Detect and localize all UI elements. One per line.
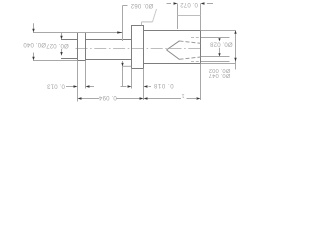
- arrow 0.094 left tip at E2: [78, 97, 82, 99]
- svg-text:0. 018: 0. 018: [153, 82, 173, 89]
- extension line cone base up: [177, 4, 179, 30]
- top right left arrow stem: [167, 3, 172, 5]
- arrow 0.013 left tip at E2b: [86, 85, 90, 87]
- extension cbore upper right: [201, 37, 230, 39]
- pin tail top edge: [62, 39, 78, 41]
- row1 0.018 right arrow stem: [148, 86, 151, 88]
- dia 0.027 bottom arrow stem: [61, 49, 63, 52]
- part outline: [62, 26, 201, 69]
- arrowheads: [32, 2, 236, 99]
- extension cbore lower right: [201, 61, 230, 63]
- dimension and extension lines: [33, 4, 236, 102]
- leader elbow vertical at flange2 right: [141, 22, 143, 25]
- arrow at end face ext pointing left: [201, 2, 205, 4]
- extension line E2: [77, 61, 79, 102]
- arrow stem A1: [33, 23, 35, 29]
- dimension texts all rotated 180: [23, 1, 233, 101]
- arrow at cone base ext pointing right: [174, 2, 178, 4]
- arrow dia027 down at pin top: [60, 36, 62, 40]
- svg-text:Ø0. 027: Ø0. 027: [46, 42, 69, 49]
- E5 vertical dim line right: [235, 31, 237, 70]
- extension end face down: [200, 64, 202, 101]
- svg-text:Ø0. 062: Ø0. 062: [130, 2, 153, 9]
- collar flange1: [78, 33, 86, 61]
- hidden hole lines: [167, 38, 201, 62]
- extension flange2 left: [131, 69, 133, 89]
- drill cone upper: [167, 41, 180, 50]
- row2 length dim line right part: [187, 98, 197, 100]
- arrow 0.094 right tip at flange2 right: [140, 97, 144, 99]
- arrow dia028 down above text: [218, 38, 220, 41]
- row2 0.094 dim line left part: [81, 98, 100, 100]
- arrow length right tip: [197, 97, 201, 99]
- counterbore lower dashed: [191, 61, 200, 63]
- L2 dim line flange bottom ext: [33, 60, 78, 62]
- arrow down on E3 at stub line: [121, 63, 123, 66]
- extension line E3 lower: [122, 61, 124, 87]
- extension line E3 upper: [122, 6, 124, 42]
- drill cone lower: [167, 50, 180, 60]
- arrow E5 bottom pointing down: [234, 58, 236, 62]
- extension line E2b: [85, 61, 87, 89]
- svg-text:Ø0. 028: Ø0. 028: [209, 41, 232, 48]
- top right right arrow stem: [207, 3, 213, 5]
- arrow A1 down at L1: [32, 29, 34, 33]
- centerline: [76, 48, 204, 50]
- arrow 0.018 tip at flange2 right: [144, 85, 148, 87]
- extension line end face up: [200, 4, 202, 31]
- leader diagonal up to top text: [153, 9, 157, 22]
- svg-text:1: 1: [181, 92, 184, 98]
- arrow dia028 down at hole lower ext: [218, 53, 220, 56]
- arrow dia027 down stops above pin bottom: [60, 52, 62, 56]
- inner dim line hole depth: [178, 15, 201, 17]
- arrow A2 down at L2: [32, 57, 34, 61]
- main body: [144, 31, 201, 64]
- arrow E5 top pointing up: [234, 31, 236, 34]
- row1 0.018 left arrow stem: [121, 86, 127, 88]
- arrow stem A2: [33, 53, 35, 58]
- arrow 0.018 tip at flange2 left: [128, 85, 132, 87]
- top bracket to text: [123, 5, 128, 7]
- svg-text:Ø0. 040: Ø0. 040: [23, 41, 46, 48]
- arrow 0.013 right tip at E2: [74, 85, 78, 87]
- leader elbow to flange2 right top: [142, 21, 153, 23]
- dia 0.028 top arrow stem: [219, 38, 221, 39]
- L1 dim line flange top ext: [33, 32, 122, 34]
- hole lower dashed tapered: [180, 57, 201, 59]
- row1 leader 0.013: [66, 86, 74, 88]
- shaft bottom edge: [86, 59, 132, 61]
- extension hole lower right: [201, 56, 230, 58]
- stub line E3 to flange2 left face: [123, 65, 132, 67]
- svg-text:Ø0. 047: Ø0. 047: [209, 72, 231, 78]
- row1 0.013 right arrow stem: [89, 86, 94, 88]
- arrow length left tip: [144, 97, 148, 99]
- dia 0.027 top arrow stem: [61, 33, 63, 36]
- counterbore upper dashed: [191, 37, 200, 39]
- hole upper dashed tapered: [180, 41, 201, 43]
- svg-text:0. 013: 0. 013: [47, 83, 65, 90]
- extension flange2 right: [143, 69, 145, 101]
- row2 length dim line left part: [148, 98, 182, 100]
- shaft top edge: [86, 39, 132, 41]
- svg-text:0. 072: 0. 072: [180, 1, 198, 8]
- arrow L1 right at E3: [117, 31, 122, 33]
- extension body bottom right: [201, 63, 236, 65]
- extension body top right: [201, 30, 236, 32]
- flange2 big collar: [132, 26, 144, 69]
- dia 0.028 bottom arrow stem: [219, 48, 221, 54]
- svg-text:0. 094: 0. 094: [98, 94, 116, 101]
- pin tail bottom edge: [62, 58, 78, 60]
- row2 0.094 dim line right part: [117, 98, 141, 100]
